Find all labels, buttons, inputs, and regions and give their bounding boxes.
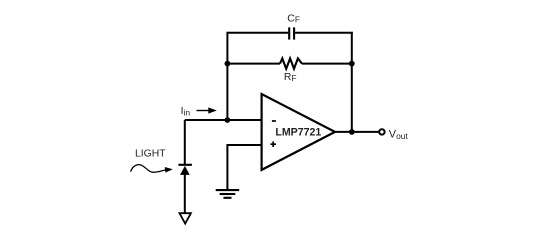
svg-text:RF: RF [284,72,297,83]
resistor RF [280,58,302,68]
wire output [334,131,379,133]
non-inverting input marker + [270,141,276,147]
svg-text:Vout: Vout [389,128,409,141]
wire right vertical feedback branch [351,32,353,132]
wire RF right lead [302,63,353,65]
svg-text:LIGHT: LIGHT [135,149,166,160]
ground [216,190,240,198]
svg-text:CF: CF [287,13,300,24]
wire left vertical feedback branch [226,32,228,120]
wire photodiode cathode branch lower [184,174,186,213]
wire inverting input [185,119,262,121]
capacitor CF [289,27,294,39]
wire RF left lead [227,63,281,65]
current arrow Iin [197,107,217,113]
svg-text:LMP7721: LMP7721 [275,127,321,139]
wire photodiode anode branch upper [184,120,186,165]
photodiode D1 [178,165,192,175]
op-amp U1 triangle [262,94,335,170]
light squiggle arrow [131,165,173,173]
node Iin junction [225,117,231,123]
wire top feedback right segment [295,32,353,34]
inverting input marker - [272,120,276,122]
svg-text:Iin: Iin [181,106,191,117]
wire non-inverting input to ground [227,145,262,190]
node feedback left junction [225,61,231,67]
node feedback right junction [349,61,355,67]
arrow to negative supply (open triangle) [180,213,191,223]
terminal Vout [379,129,384,134]
wire top feedback left segment [227,32,289,34]
node output junction [349,129,355,135]
